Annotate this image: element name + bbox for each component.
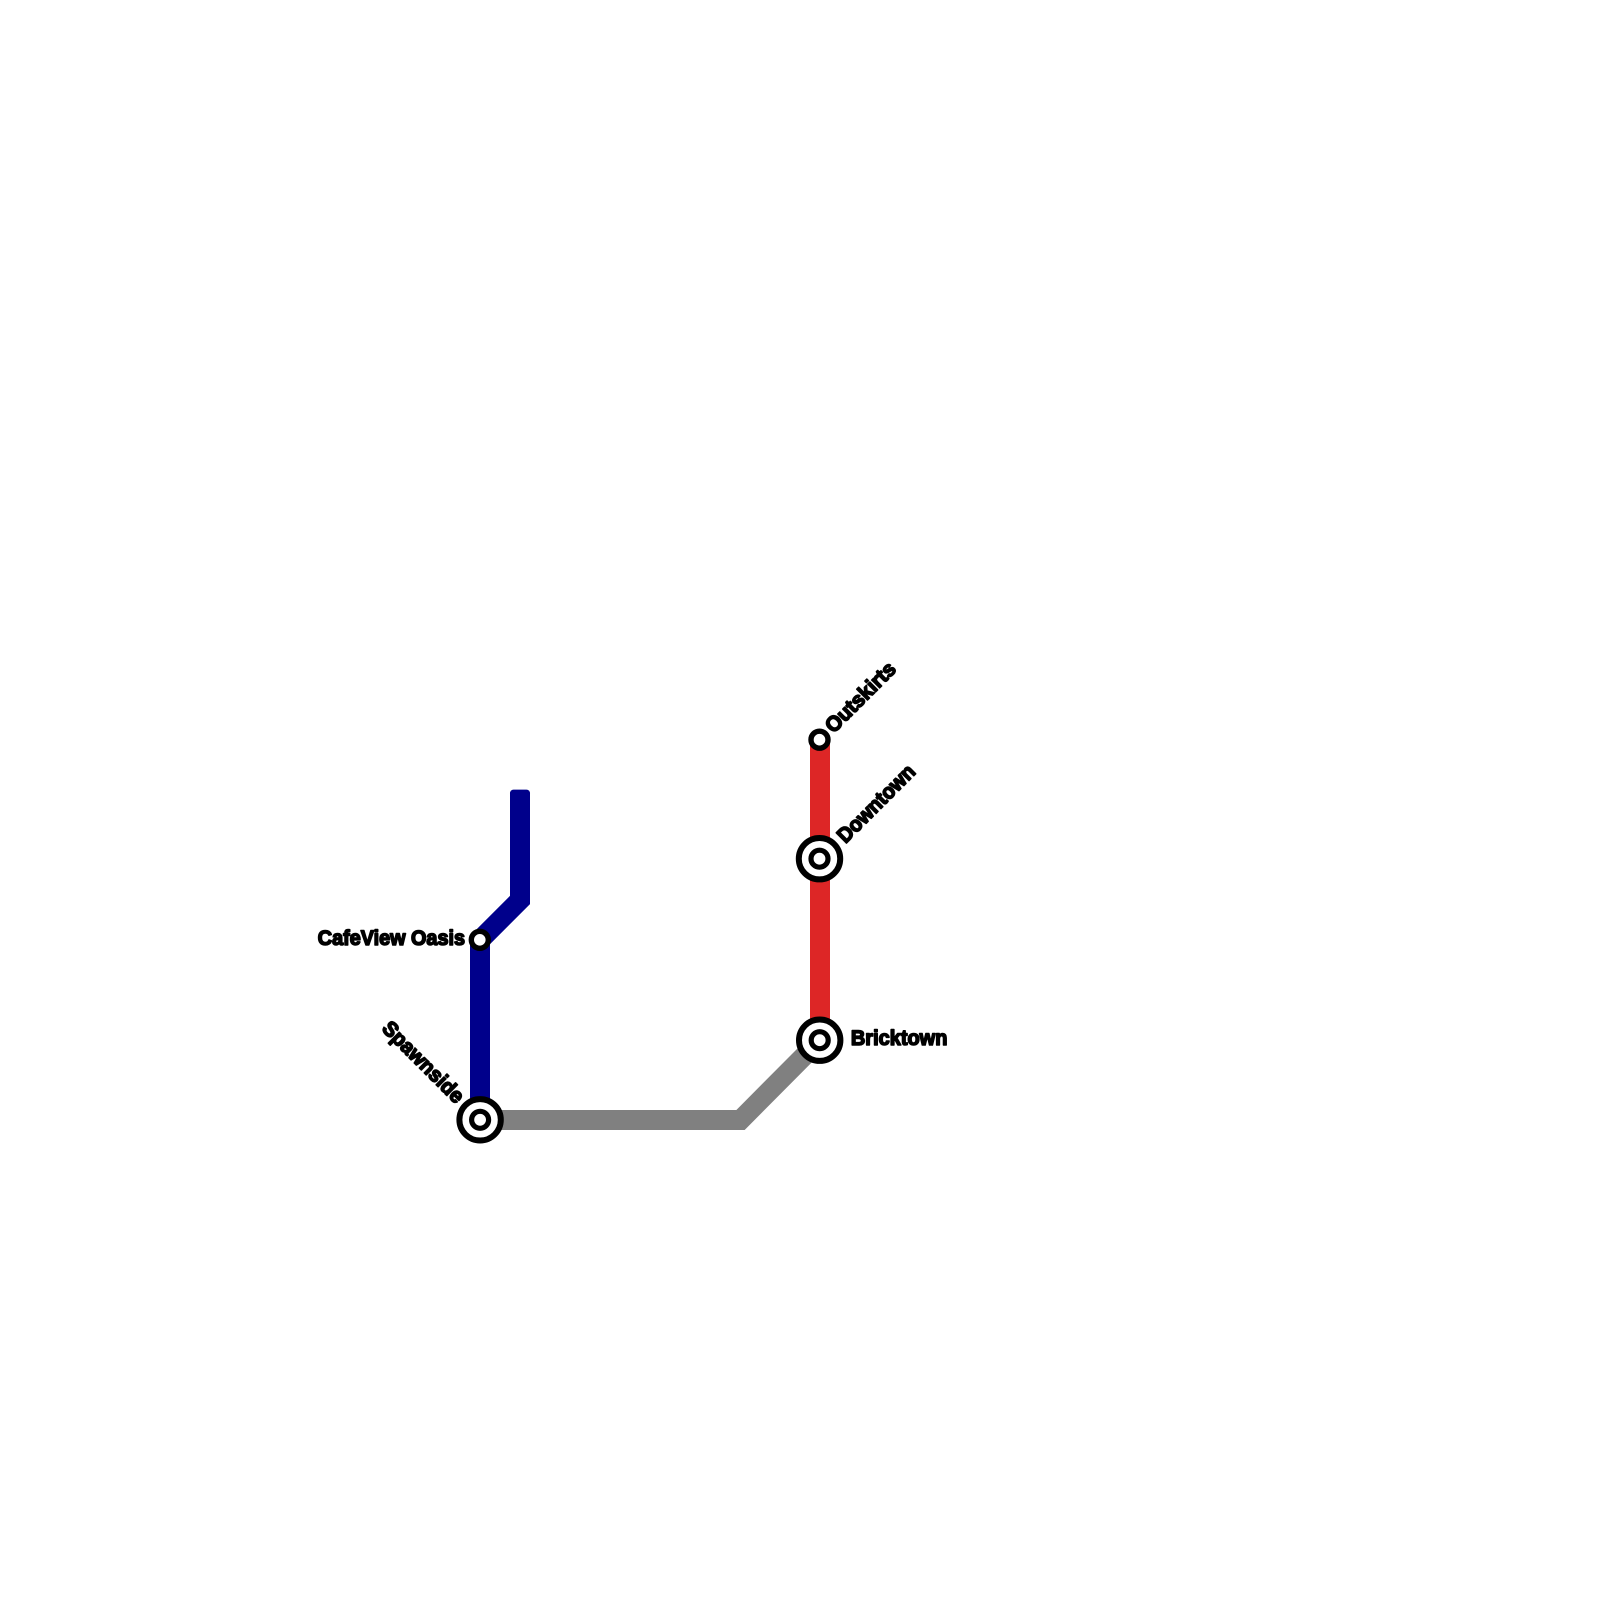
station CafeView Oasis (small marker) (471, 931, 488, 948)
blue line: terminus to Spawnside via CafeView Oasis (510, 790, 530, 802)
gray line: Spawnside to Bricktown (480, 1040, 820, 1120)
station Spawnside (interchange marker) (459, 1099, 500, 1140)
station Outskirts (small marker) (811, 731, 828, 748)
svg-text:Bricktown: Bricktown (851, 1027, 948, 1050)
svg-text:CafeView Oasis: CafeView Oasis (318, 927, 465, 950)
station Bricktown (interchange marker) (799, 1019, 840, 1060)
red line: Bricktown to Outskirts (810, 740, 830, 1040)
station Downtown (interchange marker) (799, 838, 840, 879)
